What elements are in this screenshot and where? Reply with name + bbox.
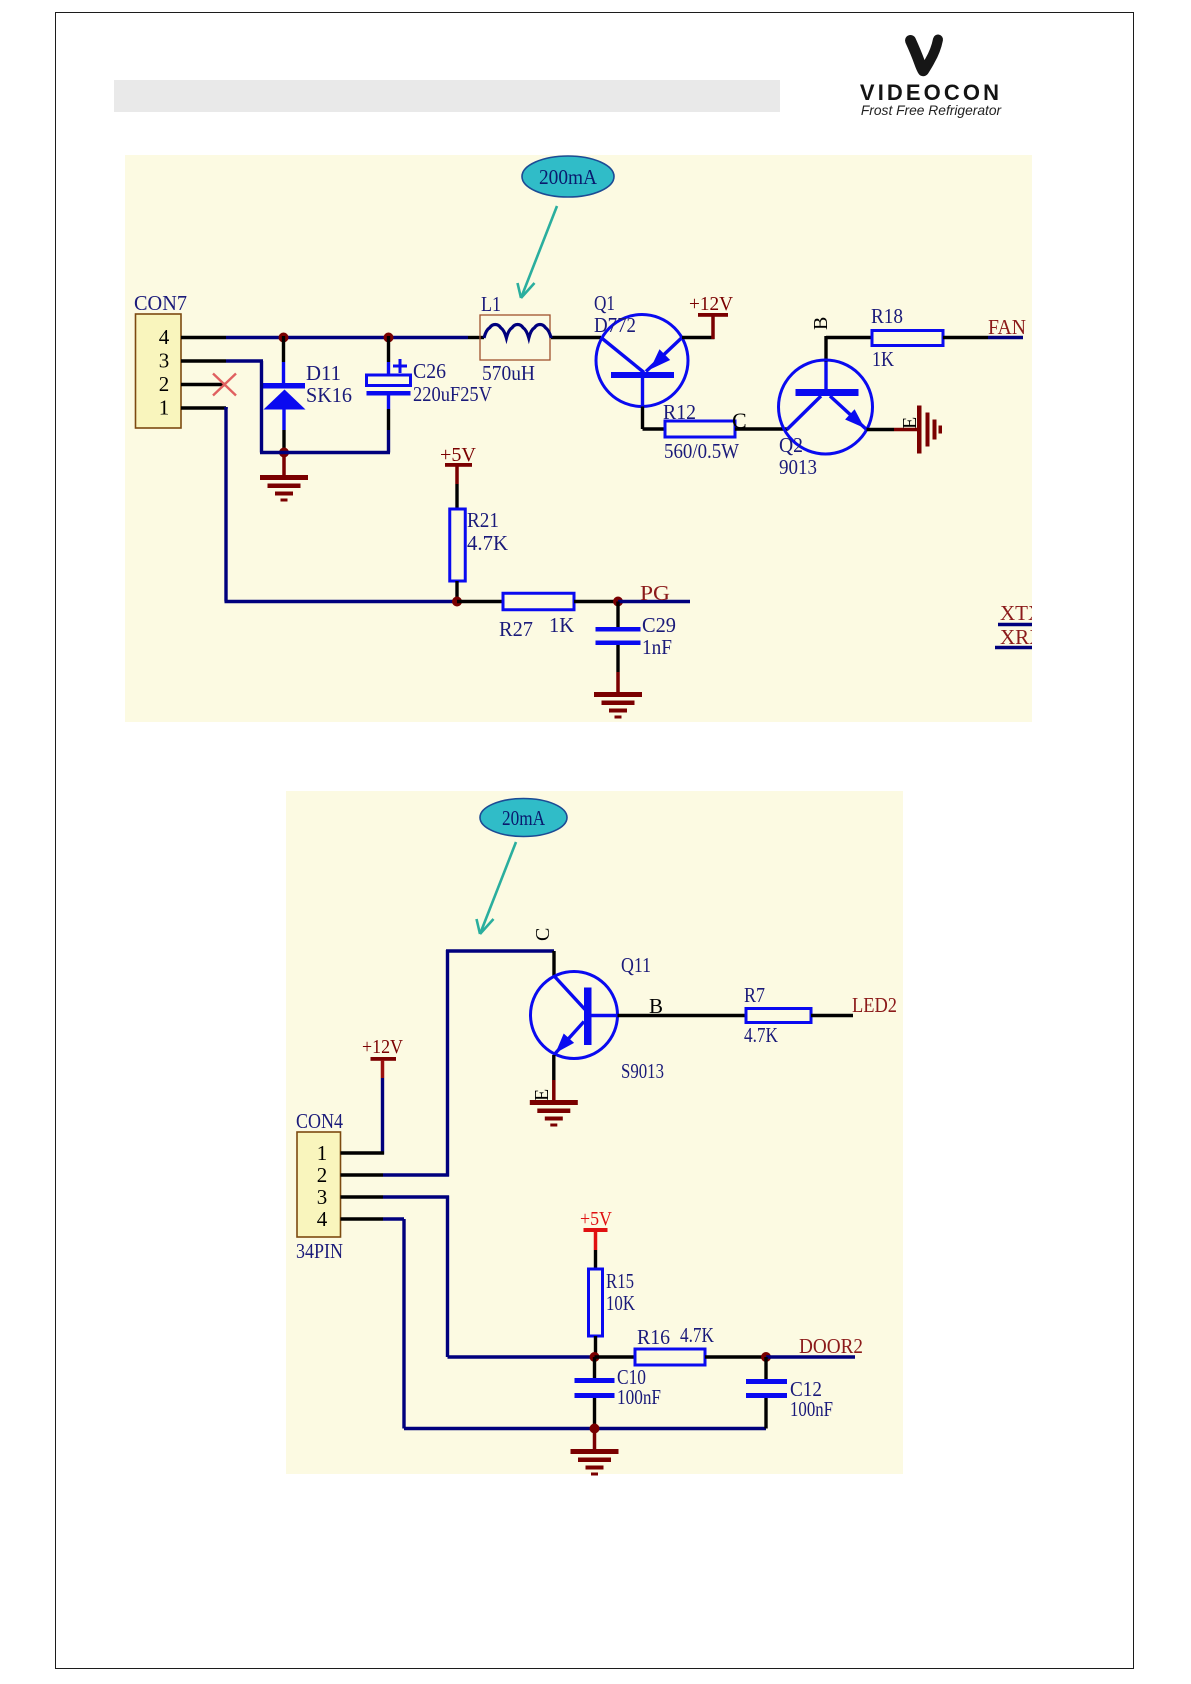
svg-text:Q1: Q1 [594, 291, 615, 315]
svg-text:R16: R16 [637, 1325, 670, 1349]
svg-text:1: 1 [159, 396, 170, 420]
svg-text:L1: L1 [481, 292, 501, 316]
svg-text:+12V: +12V [362, 1036, 403, 1058]
svg-text:XTX: XTX [1000, 601, 1043, 625]
svg-text:E: E [531, 1089, 553, 1101]
svg-text:R12: R12 [663, 400, 696, 424]
svg-text:100nF: 100nF [617, 1385, 661, 1409]
svg-text:570uH: 570uH [482, 361, 535, 385]
svg-text:FAN: FAN [988, 315, 1026, 339]
svg-text:20mA: 20mA [502, 806, 546, 830]
svg-text:+5V: +5V [580, 1208, 612, 1230]
svg-text:C: C [532, 928, 554, 941]
svg-text:4.7K: 4.7K [467, 531, 508, 555]
svg-text:DOOR2: DOOR2 [799, 1334, 863, 1358]
svg-text:XRX: XRX [1000, 625, 1044, 649]
svg-text:B: B [649, 994, 663, 1018]
svg-text:CON4: CON4 [296, 1109, 343, 1133]
svg-text:R7: R7 [744, 983, 765, 1007]
svg-text:1: 1 [317, 1141, 328, 1165]
svg-text:C29: C29 [642, 613, 676, 637]
svg-text:PG: PG [640, 581, 670, 605]
svg-text:S9013: S9013 [621, 1059, 664, 1083]
svg-text:3: 3 [317, 1185, 328, 1209]
svg-text:2: 2 [317, 1163, 328, 1187]
svg-text:3: 3 [159, 349, 170, 373]
svg-text:R27: R27 [499, 617, 533, 641]
svg-text:10K: 10K [606, 1291, 635, 1315]
svg-text:1K: 1K [872, 347, 894, 371]
svg-text:1K: 1K [549, 613, 574, 637]
svg-text:9013: 9013 [779, 455, 817, 479]
svg-text:R18: R18 [871, 304, 903, 328]
svg-text:C26: C26 [413, 359, 446, 383]
svg-text:Q2: Q2 [779, 433, 803, 457]
svg-text:SK16: SK16 [306, 383, 352, 407]
svg-text:4.7K: 4.7K [744, 1023, 778, 1047]
svg-text:+5V: +5V [440, 444, 477, 466]
svg-text:+12V: +12V [689, 293, 734, 315]
svg-text:2: 2 [159, 372, 170, 396]
svg-text:Q11: Q11 [621, 953, 651, 977]
svg-text:560/0.5W: 560/0.5W [664, 439, 739, 463]
svg-text:34PIN: 34PIN [296, 1239, 343, 1263]
svg-text:4: 4 [159, 325, 170, 349]
svg-text:R15: R15 [606, 1269, 634, 1293]
svg-text:1nF: 1nF [642, 635, 672, 659]
svg-text:D11: D11 [306, 361, 341, 385]
svg-text:4: 4 [317, 1207, 328, 1231]
svg-text:220uF25V: 220uF25V [413, 382, 492, 406]
svg-text:B: B [810, 317, 832, 330]
svg-text:LED2: LED2 [852, 993, 897, 1017]
svg-text:200mA: 200mA [539, 165, 598, 189]
svg-text:D772: D772 [594, 313, 636, 337]
svg-text:R21: R21 [467, 508, 499, 532]
svg-text:4.7K: 4.7K [680, 1323, 714, 1347]
svg-text:C: C [732, 408, 747, 433]
svg-text:CON7: CON7 [134, 291, 187, 315]
svg-text:100nF: 100nF [790, 1397, 833, 1421]
